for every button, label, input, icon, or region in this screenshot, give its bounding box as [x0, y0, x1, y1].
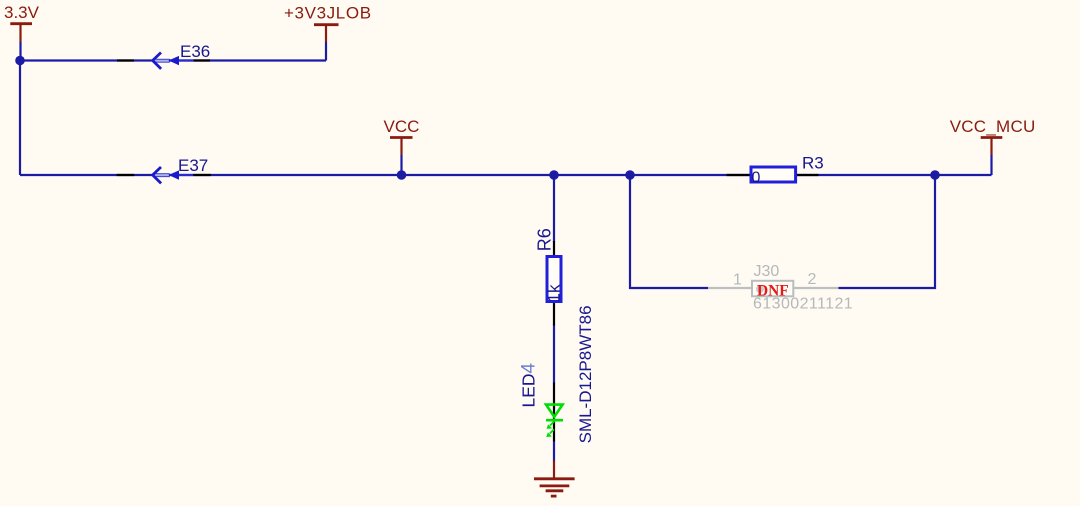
svg-text:+3V3JLOB: +3V3JLOB [284, 4, 372, 23]
svg-text:1: 1 [733, 272, 742, 289]
svg-text:R6: R6 [535, 228, 555, 251]
svg-text:VCC: VCC [384, 117, 420, 136]
svg-text:0: 0 [752, 170, 761, 187]
svg-text:DNF: DNF [757, 282, 789, 299]
svg-text:J30: J30 [754, 263, 780, 280]
svg-text:VCC_MCU: VCC_MCU [950, 117, 1036, 136]
svg-text:1k: 1k [545, 284, 564, 302]
svg-text:SML-D12P8WT86: SML-D12P8WT86 [576, 305, 595, 443]
svg-text:E36: E36 [180, 42, 210, 61]
svg-text:E37: E37 [178, 156, 208, 175]
svg-text:R3: R3 [802, 154, 824, 173]
svg-text:2: 2 [808, 271, 817, 288]
svg-text:LED4: LED4 [519, 362, 540, 407]
svg-text:3.3V: 3.3V [4, 3, 40, 22]
